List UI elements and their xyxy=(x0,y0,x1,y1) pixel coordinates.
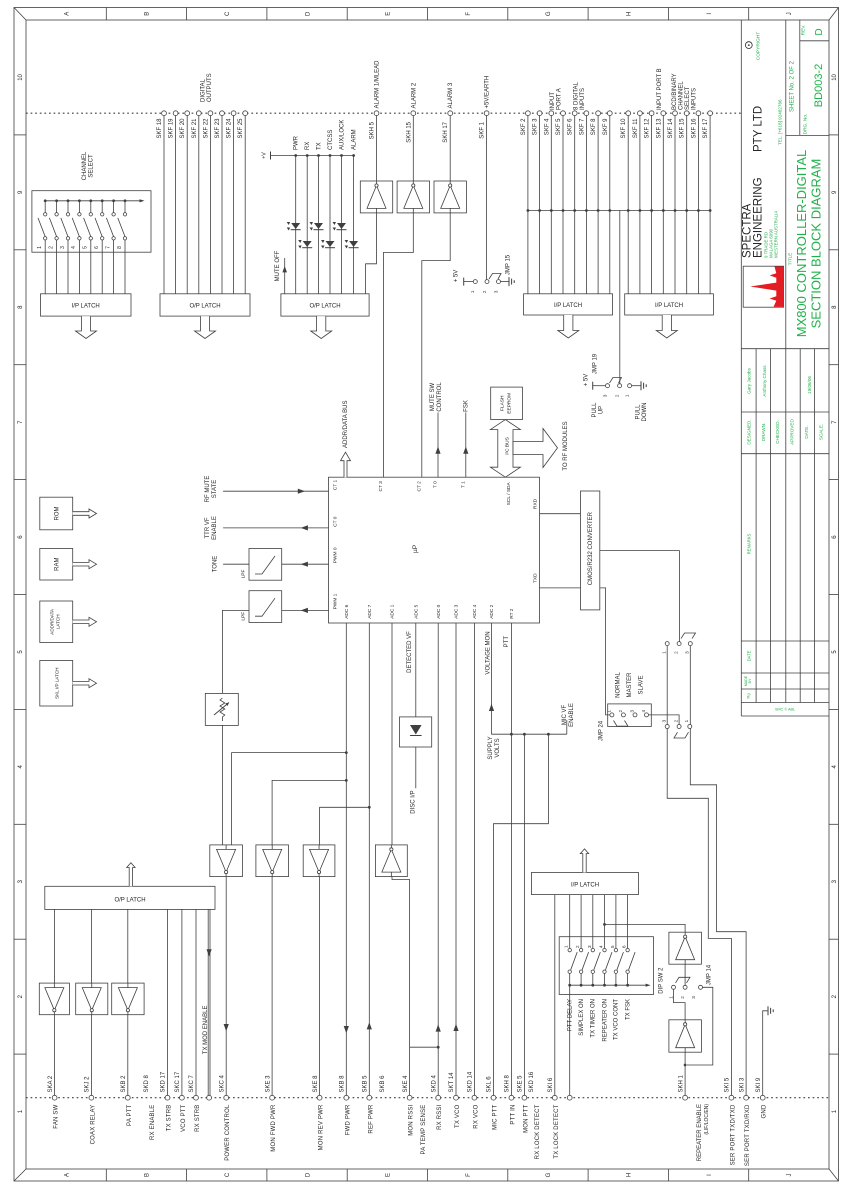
wire latch to PA PTT xyxy=(127,909,129,1095)
svg-text:RX: RX xyxy=(305,142,311,150)
bottom connector SKD 17 xyxy=(161,1071,173,1131)
svg-text:POWER CONTROL: POWER CONTROL xyxy=(225,1104,231,1161)
svg-text:SKH 8: SKH 8 xyxy=(505,1074,511,1092)
svg-text:OUTPUTS: OUTPUTS xyxy=(207,73,213,102)
svg-text:PA PTT: PA PTT xyxy=(127,1104,133,1126)
svg-text:F: F xyxy=(466,12,472,16)
svg-text:3: 3 xyxy=(602,394,607,397)
svg-text:SKF 8: SKF 8 xyxy=(591,118,597,135)
wire LPF2 to uP PWM1 xyxy=(282,608,329,613)
svg-text:Anthony Chass: Anthony Chass xyxy=(762,365,767,397)
jumper JMP 15 xyxy=(454,254,515,293)
trimmer potentiometer xyxy=(205,693,238,725)
bottom connector SKD 4 xyxy=(431,1074,443,1129)
wire trimmer to power-control buffer xyxy=(221,725,223,845)
SKL I/P LATCH box xyxy=(40,661,73,707)
svg-text:TX FSK: TX FSK xyxy=(625,999,631,1020)
svg-text:REPEATER ON: REPEATER ON xyxy=(602,999,608,1042)
connector SKF 20 with wire to O/P latch xyxy=(180,111,189,294)
svg-text:INPUT: INPUT xyxy=(550,92,556,110)
svg-text:TONE: TONE xyxy=(213,556,219,573)
svg-text:G: G xyxy=(546,11,552,16)
svg-text:SKF 21: SKF 21 xyxy=(192,118,198,139)
LED column CTCSS xyxy=(328,130,334,294)
svg-text:ALARM 3: ALARM 3 xyxy=(448,82,454,108)
svg-text:2: 2 xyxy=(673,651,678,654)
connector SKF 10 with wire to I/P latch B xyxy=(621,111,630,294)
data hollow arrow above O/P latch xyxy=(127,863,135,887)
wire lower switch 3 to SKI5 xyxy=(667,729,731,1096)
svg-text:DISC I/P: DISC I/P xyxy=(410,790,416,813)
wire power control buffer to SKC4 xyxy=(224,877,229,1096)
LED column TX xyxy=(317,142,323,293)
RT2 line to PTT IN xyxy=(510,623,512,1096)
svg-text:µP: µP xyxy=(412,545,419,553)
wire latch to FAN SW xyxy=(54,909,56,1095)
bottom connector SKD 8 xyxy=(144,1074,156,1139)
connector SKF 15 with wire to I/P latch B xyxy=(680,111,689,294)
svg-text:BCD/BINARY: BCD/BINARY xyxy=(672,73,678,110)
svg-text:PTT IN: PTT IN xyxy=(510,1105,516,1125)
svg-text:SKF 13: SKF 13 xyxy=(656,118,662,139)
MUTE SW CONTROL signal from T0 xyxy=(430,382,443,478)
svg-text:MUTE OFF: MUTE OFF xyxy=(275,250,281,281)
I/P LATCH (input port A) xyxy=(524,294,613,315)
svg-text:19/06/06: 19/06/06 xyxy=(807,376,812,394)
svg-text:SKB 5: SKB 5 xyxy=(363,1075,369,1093)
wire JMP24 pin4 to lower switch 2 xyxy=(649,715,680,725)
svg-text:T 0: T 0 xyxy=(433,481,439,488)
channel select switch 3 xyxy=(60,199,70,293)
O/P LATCH (LED drive) xyxy=(281,294,369,316)
svg-text:INPUTS: INPUTS xyxy=(580,88,586,110)
svg-text:SKF 16: SKF 16 xyxy=(691,118,697,139)
svg-text:4: 4 xyxy=(599,945,604,948)
connector SKF 2 with wire to I/P latch A xyxy=(521,111,530,294)
svg-text:RAM: RAM xyxy=(55,558,61,571)
top edge-connector dotted line xyxy=(26,112,742,114)
alarm input buffer U3 xyxy=(434,181,466,213)
bottom connector SKT 14 xyxy=(449,1072,461,1128)
svg-text:DRAWN.: DRAWN. xyxy=(761,423,766,441)
svg-text:+ 5V: + 5V xyxy=(454,270,460,283)
svg-text:SKF 15: SKF 15 xyxy=(680,118,686,139)
svg-text:6: 6 xyxy=(622,945,627,948)
8 DIGITAL INPUTS label xyxy=(574,81,587,110)
wire lower switch 1 to SKI3 xyxy=(690,729,746,1096)
svg-text:JMP 15: JMP 15 xyxy=(505,254,511,275)
svg-text:(LIF/LOC/EN): (LIF/LOC/EN) xyxy=(704,1104,710,1135)
DIP switch 6 xyxy=(622,945,636,987)
svg-text:CHANNEL: CHANNEL xyxy=(679,81,685,110)
svg-text:TX: TX xyxy=(317,142,323,150)
svg-text:FLASH: FLASH xyxy=(500,395,506,411)
svg-text:SKI 3: SKI 3 xyxy=(739,1077,745,1092)
svg-text:3: 3 xyxy=(685,651,690,654)
wire rev pwr buffer to SKE8 xyxy=(319,877,321,1096)
svg-text:SKF 1: SKF 1 xyxy=(480,121,486,138)
svg-text:SKE 3: SKE 3 xyxy=(265,1075,271,1093)
svg-text:MASTER: MASTER xyxy=(627,672,633,698)
svg-text:SER PORT TXD/TXD: SER PORT TXD/TXD xyxy=(730,1104,736,1165)
wire rail to MON PTT xyxy=(523,734,525,1095)
TO RF MODULES arrow xyxy=(513,421,569,470)
svg-text:PA TEMP SENSE: PA TEMP SENSE xyxy=(421,1105,427,1155)
ADC3 line to TX VCO xyxy=(453,623,458,1096)
svg-text:SKD 16: SKD 16 xyxy=(529,1071,535,1092)
svg-text:PULL: PULL xyxy=(636,404,642,420)
wire converter to serial switch xyxy=(600,551,680,642)
svg-text:+ 5V: + 5V xyxy=(584,374,590,387)
connector SKF 7 with wire to I/P latch A xyxy=(579,111,588,294)
svg-text:TX VCO: TX VCO xyxy=(455,1104,461,1128)
svg-text:TEL. [+618] 92482766: TEL. [+618] 92482766 xyxy=(777,99,782,145)
TONE wire into LPF xyxy=(213,556,250,573)
wire from rail to JMP 19 xyxy=(619,211,621,384)
svg-text:MON RSSI: MON RSSI xyxy=(409,1104,415,1135)
svg-text:MX800 CONTROLLER-DIGITAL: MX800 CONTROLLER-DIGITAL xyxy=(794,150,809,338)
microprocessor uP xyxy=(329,477,540,623)
connector SKF 16 with wire to I/P latch B xyxy=(691,111,700,294)
svg-text:A: A xyxy=(64,1173,70,1177)
channel select switch 1 xyxy=(37,199,47,293)
bottom connector SKE 5 xyxy=(518,1075,530,1133)
ADC6 line to FWD PWR xyxy=(344,623,349,1096)
svg-text:SKE 8: SKE 8 xyxy=(313,1075,319,1093)
FLASH EEPROM box xyxy=(491,387,523,420)
wire buffer to JMP14 pin 2 xyxy=(684,964,686,985)
svg-text:SKD 17: SKD 17 xyxy=(161,1071,167,1092)
svg-text:LPF: LPF xyxy=(240,612,246,621)
svg-text:DATE: DATE xyxy=(746,650,751,661)
wire LPF2 left to trimmer xyxy=(222,610,249,693)
svg-text:GND: GND xyxy=(762,1104,768,1118)
data hollow arrow below LED O/P latch xyxy=(311,316,332,338)
svg-text:PWM 0: PWM 0 xyxy=(333,547,339,563)
LED column ALARM xyxy=(352,129,358,293)
svg-text:VCO PTT: VCO PTT xyxy=(181,1104,187,1132)
svg-text:SKI 5: SKI 5 xyxy=(725,1077,731,1092)
svg-text:FSK: FSK xyxy=(464,400,470,412)
DIP switch 4 xyxy=(599,945,613,987)
svg-text:ADC 7: ADC 7 xyxy=(367,604,373,618)
uP bottom pin labels xyxy=(344,604,515,618)
TXD wire uP to converter xyxy=(540,587,581,589)
svg-text:TO RF MODULES: TO RF MODULES xyxy=(563,421,569,470)
I/P LATCH (option switches) xyxy=(532,872,639,894)
bottom connector SKD 16 xyxy=(529,1071,541,1159)
svg-text:REMARKS: REMARKS xyxy=(746,533,751,554)
MUTE OFF input wire with arrow xyxy=(275,250,287,293)
wire latch to DIP switch 4 xyxy=(604,895,606,949)
svg-text:SKB 8: SKB 8 xyxy=(340,1075,346,1093)
svg-text:T 1: T 1 xyxy=(460,481,466,488)
svg-text:I/P LATCH: I/P LATCH xyxy=(554,303,582,309)
svg-text:SKE 5: SKE 5 xyxy=(518,1075,524,1093)
wire LPF to uP PWM0 xyxy=(282,562,329,567)
svg-text:DRG. No.: DRG. No. xyxy=(803,114,809,135)
svg-text:SKB 6: SKB 6 xyxy=(380,1075,386,1093)
jumper JMP 24 NORMAL/MASTER/SLAVE xyxy=(599,672,652,742)
svg-text:REPEATER ENABLE: REPEATER ENABLE xyxy=(697,1104,703,1161)
svg-text:TX MOD ENABLE: TX MOD ENABLE xyxy=(203,1006,209,1055)
connector SKF 18 with wire to O/P latch xyxy=(157,111,166,294)
svg-text:UP: UP xyxy=(599,406,605,414)
BCD/BINARY CHANNEL SELECT INPUTS label xyxy=(672,73,698,110)
connector SKF 12 with wire to I/P latch B xyxy=(645,111,654,294)
svg-text:ADC 2: ADC 2 xyxy=(489,604,495,618)
svg-text:ROM: ROM xyxy=(55,507,61,521)
wire latch to TX STRB xyxy=(167,909,169,1095)
svg-text:10: 10 xyxy=(832,73,838,80)
bottom connector SKB 5 xyxy=(363,1075,375,1134)
bottom connector SKL 6 xyxy=(487,1076,499,1130)
channel select switch box xyxy=(32,191,151,253)
LED column PWR xyxy=(294,135,300,293)
svg-text:SCL / SDA: SCL / SDA xyxy=(506,482,512,506)
svg-text:PTY LTD: PTY LTD xyxy=(753,106,765,152)
svg-text:1: 1 xyxy=(564,945,569,948)
ADC2 supply voltage monitor line xyxy=(488,623,501,760)
branch REPEATER ON to repeater buffer xyxy=(603,923,685,932)
svg-text:SKT 14: SKT 14 xyxy=(449,1072,455,1093)
svg-text:JMP 19: JMP 19 xyxy=(593,353,599,374)
svg-text:SKF 3: SKF 3 xyxy=(533,118,539,135)
svg-text:DESIGNED.: DESIGNED. xyxy=(746,419,751,444)
svg-text:CONTROL: CONTROL xyxy=(437,382,443,412)
svg-text:CMOS/R232 CONVERTER: CMOS/R232 CONVERTER xyxy=(588,511,594,585)
svg-text:SKC 7: SKC 7 xyxy=(189,1074,195,1092)
wire rssi buffer to SKE4 xyxy=(392,877,410,1096)
svg-text:SECTION BLOCK DIAGRAM: SECTION BLOCK DIAGRAM xyxy=(809,159,824,329)
wire latch to RX STRB xyxy=(195,909,197,1095)
svg-text:PTT: PTT xyxy=(504,636,510,648)
channel select switch 7 xyxy=(105,199,115,293)
TX MOD ENABLE double line xyxy=(203,909,212,1095)
svg-text:ADDR/DATA: ADDR/DATA xyxy=(50,608,55,635)
repeater enable output buffer xyxy=(669,1020,702,1052)
channel select label xyxy=(82,151,95,180)
svg-text:FWD PWR: FWD PWR xyxy=(345,1104,351,1135)
svg-text:ENABLE: ENABLE xyxy=(212,516,218,540)
LED RX xyxy=(298,240,312,249)
svg-text:MON PTT: MON PTT xyxy=(523,1104,529,1133)
svg-text:FAN SW: FAN SW xyxy=(54,1104,60,1128)
svg-text:SKE 4: SKE 4 xyxy=(403,1075,409,1093)
LED CTCSS xyxy=(321,240,335,249)
power control buffer xyxy=(210,845,243,877)
svg-text:1: 1 xyxy=(624,394,629,397)
svg-text:A: A xyxy=(64,12,70,16)
wire JMP14 pin1 to lower repeater buffer xyxy=(674,989,686,1020)
alarm input buffer U1 xyxy=(360,181,392,213)
svg-text:3: 3 xyxy=(630,709,635,712)
uP left pin labels xyxy=(333,480,339,610)
svg-text:MON REV PWR: MON REV PWR xyxy=(319,1104,325,1150)
svg-text:SMC © ABL: SMC © ABL xyxy=(775,708,795,712)
svg-text:B: B xyxy=(145,12,151,16)
ROM box xyxy=(40,497,73,530)
svg-text:TITLE: TITLE xyxy=(788,253,793,266)
wire rail to MIC PTT xyxy=(494,734,549,1095)
LED ALARM xyxy=(345,240,359,249)
svg-text:1: 1 xyxy=(661,651,666,654)
svg-text:E: E xyxy=(386,1173,392,1177)
svg-text:SIMPLEX ON: SIMPLEX ON xyxy=(579,999,585,1036)
copyright symbol and text xyxy=(745,32,761,61)
ADC7 line to REF PWR xyxy=(367,623,372,1096)
I/P LATCH (channel select) xyxy=(41,294,132,316)
svg-text:ALARM 2: ALARM 2 xyxy=(411,82,417,108)
rssi buffer xyxy=(375,845,407,877)
svg-text:CTCSS: CTCSS xyxy=(328,130,334,150)
svg-text:3: 3 xyxy=(587,945,592,948)
svg-text:J: J xyxy=(787,1174,793,1177)
svg-text:SKF 2: SKF 2 xyxy=(521,118,527,135)
bottom connector SKD 14 xyxy=(468,1071,480,1129)
svg-text:8 DIGITAL: 8 DIGITAL xyxy=(574,81,580,110)
svg-text:SKC 17: SKC 17 xyxy=(175,1071,181,1092)
wire latch to DIP switch 6 xyxy=(627,895,629,949)
data hollow arrow below I/P latch A xyxy=(558,315,579,338)
svg-text:+5V/EARTH: +5V/EARTH xyxy=(485,76,491,109)
svg-text:SKL I/P LATCH: SKL I/P LATCH xyxy=(55,668,60,699)
wire fwd pwr buffer to SKE3 xyxy=(271,877,273,1096)
svg-text:ADC 5: ADC 5 xyxy=(414,604,420,618)
wire latch to TX LOCK DETECT xyxy=(554,895,556,1096)
svg-text:SKH 5: SKH 5 xyxy=(370,121,376,139)
svg-text:RX STRB: RX STRB xyxy=(195,1105,201,1132)
svg-text:3: 3 xyxy=(661,719,666,722)
sheet number xyxy=(790,60,826,134)
title block signature columns xyxy=(756,349,815,703)
bottom connector SKB 8 xyxy=(340,1075,352,1135)
svg-text:MIC PTT: MIC PTT xyxy=(493,1104,499,1130)
svg-text:SKH 1: SKH 1 xyxy=(678,1074,684,1092)
svg-text:ADC 0: ADC 0 xyxy=(436,604,442,618)
ADC1 line from MON RSSI buffer xyxy=(391,623,393,845)
svg-text:APPROVED: APPROVED xyxy=(790,419,795,445)
bottom connector SKC 7 xyxy=(189,1074,201,1131)
svg-text:STATE: STATE xyxy=(212,480,218,498)
svg-text:B: B xyxy=(145,1173,151,1177)
wire latch to DIP switch 5 xyxy=(615,895,617,949)
svg-text:SKH 15: SKH 15 xyxy=(406,121,412,142)
wire converter TXD side to JMP24 pin 1 xyxy=(600,588,610,715)
svg-text:BD003-2: BD003-2 xyxy=(813,64,825,107)
channel select switch 4 xyxy=(71,199,81,293)
connector SKF 4 with wire to I/P latch A xyxy=(544,111,553,294)
connector SKH 15 (ALARM 2) xyxy=(406,82,417,181)
svg-text:2: 2 xyxy=(482,290,487,293)
svg-text:ALARM: ALARM xyxy=(352,129,358,150)
svg-text:ADC 6: ADC 6 xyxy=(344,604,350,618)
connector SKF 8 with wire to I/P latch A xyxy=(591,111,600,294)
svg-text:DATE.: DATE. xyxy=(804,425,809,438)
svg-text:TX STRB: TX STRB xyxy=(167,1105,173,1132)
wire buffer to SKH1 xyxy=(684,1052,686,1095)
data hollow arrow below O/P latch xyxy=(195,316,216,338)
O/P LATCH (digital outputs) xyxy=(160,294,250,316)
bottom connector SKH 1 xyxy=(678,1074,687,1100)
svg-text:H: H xyxy=(626,1173,632,1177)
jumper JMP 19 pull-up/pull-down select xyxy=(584,353,649,421)
connector SKF 5 with wire to I/P latch A xyxy=(556,111,565,294)
svg-text:SCALE.: SCALE. xyxy=(818,424,823,440)
svg-text:RX VCO: RX VCO xyxy=(473,1104,479,1128)
LED PWR xyxy=(287,222,301,231)
svg-text:Rg: Rg xyxy=(746,693,751,698)
svg-text:JMP 14: JMP 14 xyxy=(706,964,712,985)
svg-text:D: D xyxy=(814,28,825,35)
svg-text:SKF 17: SKF 17 xyxy=(703,118,709,139)
svg-text:2: 2 xyxy=(673,719,678,722)
svg-text:VOLTS: VOLTS xyxy=(495,738,501,757)
bottom connector node xyxy=(207,1095,212,1100)
svg-text:AUX/LOCK: AUX/LOCK xyxy=(340,120,346,150)
svg-text:SKF 18: SKF 18 xyxy=(157,118,163,139)
svg-text:I/P LATCH: I/P LATCH xyxy=(72,304,100,310)
bottom connector SKC 4 xyxy=(219,1074,231,1160)
svg-text:SKD 14: SKD 14 xyxy=(468,1071,474,1092)
bottom connector SKE 3 xyxy=(265,1075,277,1152)
svg-text:TXD: TXD xyxy=(533,573,539,583)
svg-text:4: 4 xyxy=(71,246,77,249)
svg-text:MIC VF: MIC VF xyxy=(562,705,568,726)
svg-text:C: C xyxy=(225,1172,231,1177)
svg-text:7: 7 xyxy=(105,246,111,249)
REV box xyxy=(801,25,825,36)
svg-text:ADDR/DATA BUS: ADDR/DATA BUS xyxy=(343,401,349,448)
svg-text:SKF 23: SKF 23 xyxy=(215,118,221,139)
svg-text:+V: +V xyxy=(262,152,268,159)
svg-text:CHECKED.: CHECKED. xyxy=(775,420,780,444)
svg-text:SKF 12: SKF 12 xyxy=(645,118,651,139)
detector diode box xyxy=(400,717,432,747)
wire latch to DIP switch 3 xyxy=(592,895,594,949)
wire latch to VCO PTT xyxy=(181,909,183,1095)
connector SKF 13 with wire to I/P latch B xyxy=(656,111,665,294)
fwd pwr monitor buffer xyxy=(256,845,289,877)
svg-text:2: 2 xyxy=(575,945,580,948)
svg-text:4: 4 xyxy=(641,709,646,712)
svg-text:1: 1 xyxy=(607,709,612,712)
bottom connector SKE 4 xyxy=(403,1075,415,1136)
svg-text:RXD: RXD xyxy=(533,498,539,509)
MIC VF ENABLE stub xyxy=(562,703,575,734)
LED TX xyxy=(310,222,324,231)
svg-text:SKF 10: SKF 10 xyxy=(621,118,627,139)
connector SKF 1 (+5V/EARTH) xyxy=(480,76,491,280)
svg-text:REF PWR: REF PWR xyxy=(368,1104,374,1134)
svg-text:SKD 4: SKD 4 xyxy=(431,1074,437,1092)
bottom connector SKB 6 xyxy=(380,1075,386,1093)
svg-text:INPUTS: INPUTS xyxy=(692,88,698,110)
drawing title xyxy=(788,150,824,338)
FSK signal from T1 xyxy=(463,400,469,477)
INPUT PORT A label xyxy=(550,88,563,110)
wire latch to COAX RELAY xyxy=(90,909,92,1095)
svg-text:JMP 24: JMP 24 xyxy=(599,720,605,741)
svg-text:I²C BUS: I²C BUS xyxy=(504,437,510,455)
connector SKF 11 with wire to I/P latch B xyxy=(633,111,642,294)
svg-text:CT 0: CT 0 xyxy=(333,516,339,527)
ADC5 line through detector diode xyxy=(410,623,416,814)
bottom connector PA TEMP SENSE xyxy=(421,1105,427,1155)
RF MUTE STATE input wire to CT1 xyxy=(205,476,329,503)
svg-text:TX LOCK DETECT: TX LOCK DETECT xyxy=(554,1104,560,1158)
bottom connector SKB 2 xyxy=(121,1075,133,1126)
